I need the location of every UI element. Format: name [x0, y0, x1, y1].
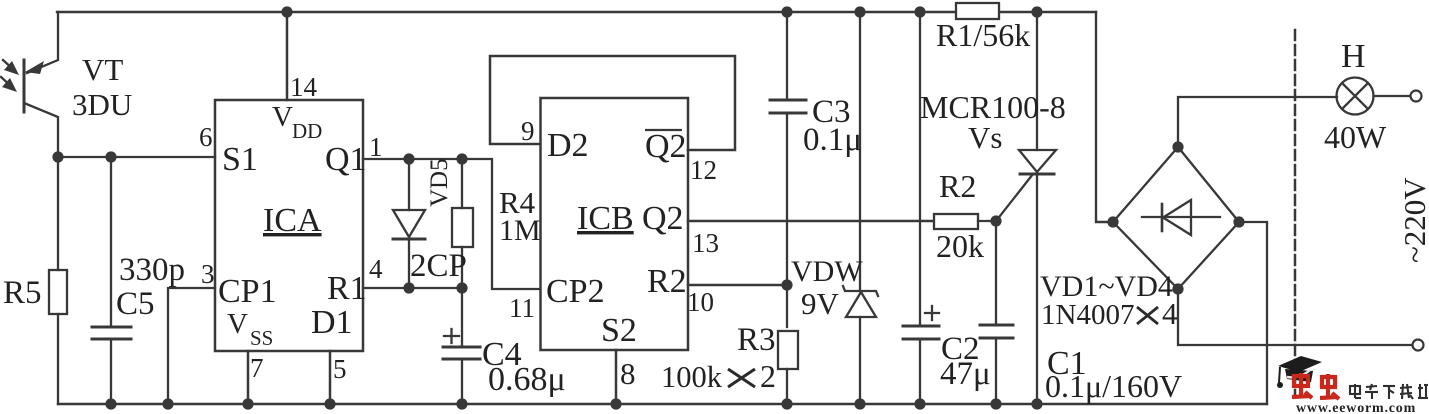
watermark chongchong char 1 — [1292, 373, 1312, 398]
bridge inner diode wire — [1142, 216, 1220, 218]
phototransistor VT collector arrowhead — [25, 61, 44, 74]
junction dot C5 top — [105, 151, 116, 162]
junction dot C1 at bus — [990, 398, 1001, 409]
terminal top — [1411, 91, 1422, 102]
thyristor Vs gate lead — [996, 174, 1033, 221]
capacitor C3 top lead — [786, 12, 788, 100]
thyristor Vs anode lead — [1036, 12, 1038, 150]
svg-text:www.eeworm.com: www.eeworm.com — [1296, 401, 1416, 414]
diode VD5 triangle — [393, 210, 425, 237]
capacitor C2 polarity plus — [925, 312, 939, 314]
svg-text:40W: 40W — [1324, 119, 1387, 155]
phototransistor VT collector lead — [27, 12, 58, 73]
svg-text:R2: R2 — [939, 168, 976, 204]
svg-text:1N4007: 1N4007 — [1041, 299, 1134, 331]
resistor R1 body on top bus — [956, 3, 999, 19]
junction dot pin7 at bus — [242, 398, 253, 409]
svg-text:CP1: CP1 — [218, 273, 277, 310]
svg-text:S1: S1 — [222, 141, 258, 178]
capacitor C2 bottom lead — [919, 339, 921, 404]
junction dot C4 at bus — [456, 398, 467, 409]
wire R1 pin4 row — [363, 287, 462, 289]
resistor R2 body on Q2 row — [934, 214, 978, 229]
svg-text:1: 1 — [369, 132, 383, 162]
svg-text:13: 13 — [692, 228, 719, 258]
resistor R5 leads — [57, 157, 59, 270]
wire bridge top vertex to lamp — [1178, 97, 1337, 147]
wire bridge bottom vertex to bottom terminal — [1178, 289, 1412, 345]
svg-text:R1: R1 — [327, 270, 367, 307]
diode VD5 leads — [408, 159, 410, 210]
svg-text:Vs: Vs — [968, 120, 1002, 155]
junction dot pin8 at bus — [610, 398, 621, 409]
junction dot bridge right vertex — [1233, 216, 1244, 227]
svg-text:5: 5 — [333, 354, 347, 384]
junction dot VDW at bus — [854, 398, 865, 409]
svg-text:DD: DD — [292, 119, 322, 143]
capacitor C4 polarity plus — [444, 335, 459, 337]
svg-text:~220V: ~220V — [1397, 177, 1429, 263]
thyristor Vs triangle — [1019, 150, 1056, 172]
resistor R3 body — [778, 331, 798, 369]
svg-text:C5: C5 — [116, 286, 155, 322]
svg-text:S2: S2 — [601, 312, 637, 349]
wire top supply bus — [57, 11, 1096, 13]
resistor R4 body — [452, 208, 473, 247]
junction dot VDW column top — [854, 6, 865, 17]
junction dot pin5 at bus — [324, 398, 335, 409]
svg-text:4: 4 — [369, 254, 383, 284]
pin 7 wire (VSS) — [247, 351, 250, 404]
svg-text:VDW: VDW — [791, 255, 863, 288]
zener VDW bottom lead — [859, 317, 861, 404]
junction dot C3 column top — [781, 6, 792, 17]
svg-text:9: 9 — [521, 116, 535, 146]
svg-text:R5: R5 — [3, 275, 42, 311]
capacitor C4 plates — [443, 346, 480, 349]
svg-text:V: V — [272, 101, 293, 133]
dashed separation line — [1294, 30, 1297, 397]
op-amp IC box ICA — [215, 100, 363, 351]
pin 5 wire (D1) — [329, 351, 332, 404]
junction dot R1/VD5 — [403, 282, 414, 293]
terminal bottom — [1413, 340, 1424, 351]
capacitor C5 bottom lead — [110, 339, 112, 404]
junction dot pin14 at top bus — [281, 6, 292, 17]
svg-text:0.68μ: 0.68μ — [488, 361, 566, 398]
diode VD5 cathode bar — [393, 238, 425, 241]
lamp H circle — [1337, 78, 1374, 115]
wire feedback loop D2 to Q2bar — [490, 56, 735, 150]
wire C3 to R3 — [786, 113, 788, 327]
wire R2 pin10 row — [688, 284, 787, 287]
svg-text:0.1μ/160V: 0.1μ/160V — [1045, 368, 1182, 404]
svg-text:R3: R3 — [737, 322, 776, 358]
capacitor C4 top lead — [461, 288, 463, 347]
junction dot bridge bottom vertex — [1172, 283, 1183, 294]
junction dot C2 column top — [914, 6, 925, 17]
svg-text:11: 11 — [509, 293, 535, 323]
svg-text:20k: 20k — [936, 228, 984, 264]
junction dot bridge left vertex — [1107, 216, 1118, 227]
junction dot Q1/VD5 — [403, 153, 414, 164]
svg-text:330p: 330p — [119, 252, 185, 288]
resistor R4 leads — [461, 159, 463, 208]
junction dot thyristor column top — [1031, 6, 1042, 17]
junction dot pin10 at C3 column — [781, 279, 792, 290]
wire lamp to top terminal — [1374, 95, 1411, 97]
svg-text:9V: 9V — [801, 286, 840, 321]
svg-text:4: 4 — [1162, 296, 1178, 331]
bridge inner diode cathode bar — [1161, 204, 1164, 231]
svg-text:6: 6 — [199, 122, 213, 152]
svg-text:V: V — [227, 308, 248, 340]
wire bottom ground bus — [58, 403, 1267, 405]
svg-text:3DU: 3DU — [72, 87, 132, 122]
svg-text:D2: D2 — [547, 127, 589, 164]
wire Q1 output to CP2 — [363, 159, 540, 289]
junction dot R1/R4/C4 — [456, 282, 467, 293]
watermark chongchong char 2 — [1320, 374, 1339, 399]
watermark site name glyphs — [1350, 384, 1428, 399]
svg-text:10: 10 — [687, 287, 714, 317]
svg-text:7: 7 — [250, 353, 264, 383]
capacitor C3 plates — [770, 99, 806, 102]
svg-text:1M: 1M — [499, 214, 541, 247]
wire bridge right vertex to ground bus — [1239, 222, 1267, 404]
svg-text:VD5: VD5 — [426, 158, 453, 207]
phototransistor VT base bar — [23, 60, 26, 112]
wire S1 node row — [58, 156, 215, 158]
pin 8 wire (S2) — [615, 350, 618, 404]
svg-text:D1: D1 — [311, 304, 353, 341]
junction dot VT/R5 — [52, 151, 63, 162]
svg-text:14: 14 — [290, 72, 318, 102]
bridge inner diode triangle — [1163, 200, 1191, 235]
capacitor C1 plates — [980, 324, 1013, 327]
svg-text:CP2: CP2 — [546, 273, 605, 310]
svg-text:3: 3 — [201, 259, 215, 289]
capacitor C1 top lead — [995, 221, 997, 325]
thyristor Vs cathode lead — [1036, 174, 1038, 404]
svg-text:R2: R2 — [647, 263, 687, 300]
light arrow 2 into VT — [1, 77, 13, 88]
svg-text:Q2: Q2 — [642, 200, 684, 237]
junction dot C5 bottom — [105, 398, 116, 409]
svg-text:R1/56k: R1/56k — [936, 17, 1030, 53]
capacitor C2 plates — [903, 325, 939, 328]
svg-text:2CP: 2CP — [410, 248, 467, 284]
svg-text:2: 2 — [760, 358, 776, 394]
wire top bus right drop to bridge left vertex — [1096, 12, 1113, 222]
flip-flop IC box ICB — [541, 98, 689, 350]
svg-text:47μ: 47μ — [940, 356, 991, 392]
watermark graduation cap icon — [1277, 356, 1322, 388]
svg-text:ICA: ICA — [263, 202, 322, 239]
bridge rectifier VD1-VD4 diamond — [1113, 147, 1239, 289]
svg-text:ICB: ICB — [577, 200, 634, 237]
svg-text:0.1μ: 0.1μ — [803, 122, 862, 158]
junction dot thyristor at bus — [1031, 398, 1042, 409]
junction dot gate node — [990, 215, 1001, 226]
svg-text:Q2: Q2 — [645, 128, 687, 165]
light arrow 1 into VT — [3, 60, 15, 71]
junction dot R3 at bus — [781, 398, 792, 409]
resistor R3 bottom lead — [786, 369, 788, 404]
pin 14 wire (VDD) — [286, 12, 289, 100]
capacitor C5 plates — [92, 326, 131, 329]
lamp H cross — [1343, 84, 1368, 109]
svg-text:VT: VT — [82, 52, 123, 87]
svg-text:H: H — [1341, 38, 1366, 75]
wire R2 to gate node — [978, 220, 996, 222]
svg-text:8: 8 — [620, 356, 636, 391]
junction dot Q1/R4 — [456, 153, 467, 164]
capacitor C5 top lead — [110, 157, 112, 327]
capacitor C4 bottom lead — [461, 359, 463, 404]
thyristor Vs cathode bar — [1020, 173, 1054, 176]
junction dot C2 at bus — [914, 398, 925, 409]
junction dot CP1 wire at bus — [162, 398, 173, 409]
svg-text:SS: SS — [250, 326, 273, 350]
zener VDW top lead — [859, 12, 861, 291]
svg-text:12: 12 — [690, 155, 717, 185]
zener VDW triangle — [846, 292, 876, 317]
wire CP1 to ground bus — [168, 288, 215, 404]
capacitor C1 bottom lead — [995, 338, 997, 404]
wire Q2 pin13 row — [688, 220, 934, 223]
svg-text:Q1: Q1 — [325, 141, 367, 178]
phototransistor VT emitter lead — [24, 103, 58, 157]
capacitor C2 top lead — [919, 12, 921, 326]
zener VDW cathode bar with tails — [843, 286, 878, 296]
svg-text:100k: 100k — [661, 360, 723, 394]
resistor R5 body — [49, 270, 67, 314]
junction dot bridge top vertex — [1172, 141, 1183, 152]
